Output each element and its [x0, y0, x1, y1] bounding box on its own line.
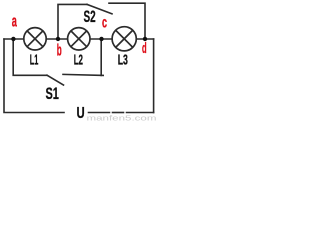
switch S1 lever (open) — [47, 75, 64, 85]
wire main horizontal bus a-b-c-d — [4, 38, 154, 40]
switch S2 lever (open) — [87, 4, 112, 13]
svg-text:a: a — [12, 13, 18, 31]
node b junction dot — [56, 37, 60, 41]
svg-text:U: U — [77, 105, 85, 122]
svg-text:S2: S2 — [84, 7, 96, 26]
node d junction dot — [143, 37, 147, 41]
svg-text:S1: S1 — [46, 84, 59, 103]
wire S1 right side — [63, 74, 103, 75]
battery U dashed break — [89, 112, 110, 114]
svg-text:L3: L3 — [118, 52, 128, 69]
wire left rail — [4, 39, 64, 113]
lamp L3 — [112, 27, 136, 51]
wire riser node a down to S1 — [13, 39, 47, 75]
svg-text:manfen5.com: manfen5.com — [87, 113, 157, 122]
node c junction dot — [99, 37, 103, 41]
svg-text:b: b — [57, 41, 62, 59]
wire riser node c down to S1 — [100, 39, 102, 75]
lamp L2 — [68, 28, 90, 50]
lamp L1 — [24, 28, 46, 50]
wire top right to node d — [109, 3, 145, 39]
wire right rail — [153, 39, 155, 113]
svg-text:c: c — [102, 14, 107, 31]
node a junction dot — [11, 37, 15, 41]
wire riser node b to top — [58, 4, 87, 39]
svg-text:d: d — [142, 40, 147, 57]
svg-text:L2: L2 — [74, 52, 83, 69]
svg-text:L1: L1 — [30, 52, 39, 69]
